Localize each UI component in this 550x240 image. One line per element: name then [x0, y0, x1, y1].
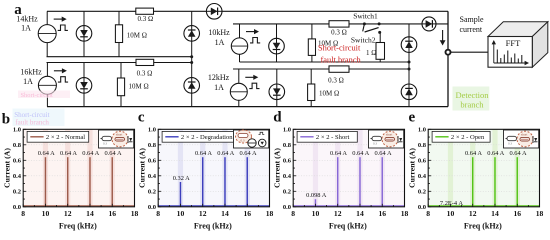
svg-text:Freq (kHz): Freq (kHz)	[194, 221, 232, 230]
svg-text:Short-circuit: Short-circuit	[21, 92, 54, 99]
resistor R1 10M	[115, 25, 122, 43]
svg-text:16kHz: 16kHz	[20, 67, 42, 76]
svg-text:0.32 A: 0.32 A	[173, 175, 190, 182]
svg-text:0.6: 0.6	[418, 158, 427, 165]
svg-text:1A: 1A	[21, 24, 31, 33]
svg-text:18: 18	[131, 209, 139, 218]
diode D6 left chain lower	[184, 78, 200, 94]
legend e	[432, 131, 490, 142]
wire resistor R2 branch	[120, 63, 122, 107]
svg-text:1.0: 1.0	[418, 127, 426, 134]
axis titles c	[137, 148, 232, 231]
wire branch2 top rail	[47, 62, 192, 64]
wire branch1 bottom rail	[47, 56, 192, 58]
arrow sample current	[440, 30, 446, 46]
current source I3 10kHz	[231, 29, 260, 54]
svg-text:fault branch: fault branch	[15, 119, 49, 127]
inset icon e	[504, 130, 539, 148]
resistor R8 1ohm fault	[376, 43, 385, 60]
svg-text:10M Ω: 10M Ω	[129, 83, 149, 91]
resistor R2 10M	[117, 78, 124, 96]
panel label b	[2, 112, 10, 128]
FFT box	[488, 22, 548, 67]
current source I4 12kHz	[230, 75, 259, 101]
diode D3	[269, 38, 285, 54]
svg-text:14: 14	[86, 209, 94, 218]
svg-text:fault branch: fault branch	[321, 56, 362, 65]
panel label d	[273, 110, 282, 126]
wire left diode chain	[191, 11, 193, 106]
svg-text:0.64 A: 0.64 A	[60, 150, 77, 157]
svg-text:0.3 Ω: 0.3 Ω	[331, 29, 347, 37]
value labels e	[440, 150, 527, 207]
panel label a	[14, 2, 22, 18]
svg-text:Freq (kHz): Freq (kHz)	[329, 221, 367, 230]
svg-text:8: 8	[156, 209, 160, 218]
svg-text:0.2: 0.2	[148, 189, 156, 196]
svg-text:0.8: 0.8	[418, 142, 427, 149]
svg-text:2 × 2 - Degradation: 2 × 2 - Degradation	[181, 134, 233, 141]
svg-text:10: 10	[42, 209, 50, 218]
axis tick labels e	[418, 127, 544, 219]
svg-text:0.64 A: 0.64 A	[195, 150, 212, 157]
wire resistor R1 branch	[118, 11, 120, 56]
label I2 16kHz 1A	[20, 67, 42, 86]
chart panel e	[428, 129, 539, 207]
wire resistor R3 branch	[311, 24, 313, 62]
legend d	[297, 131, 357, 142]
label R2 10M	[129, 83, 149, 91]
value labels b	[38, 150, 122, 157]
svg-text:d: d	[273, 110, 282, 126]
svg-text:Current (A): Current (A)	[407, 148, 416, 188]
wire diode D3 branch	[276, 24, 278, 62]
chart panel b	[23, 129, 134, 207]
svg-text:Short-circuit: Short-circuit	[318, 44, 361, 53]
resistor R9 0.3ohm	[329, 66, 349, 72]
svg-text:10kHz: 10kHz	[208, 28, 230, 37]
FFT spectrum axes	[492, 40, 529, 65]
svg-text:0.4: 0.4	[13, 173, 22, 180]
svg-text:7.2E-4 A: 7.2E-4 A	[440, 200, 463, 207]
label FFT	[506, 38, 521, 48]
svg-text:0.3 Ω: 0.3 Ω	[328, 77, 344, 85]
label R9 0.3ohm	[328, 77, 344, 85]
svg-text:0.2: 0.2	[13, 189, 21, 196]
diode D4	[269, 84, 285, 100]
label R4 10M	[319, 90, 339, 98]
svg-text:Switch1: Switch1	[353, 12, 378, 21]
svg-text:1.0: 1.0	[148, 127, 156, 134]
resistor R3 10M	[308, 39, 315, 56]
diode D7 middle chain upper	[401, 37, 417, 53]
axis titles b	[2, 148, 97, 231]
svg-text:16: 16	[108, 209, 116, 218]
svg-text:0.6: 0.6	[13, 158, 22, 165]
svg-text:10: 10	[447, 209, 455, 218]
svg-text:0.8: 0.8	[148, 142, 157, 149]
svg-text:18: 18	[536, 209, 544, 218]
svg-text:0.0: 0.0	[283, 204, 291, 211]
ghost text pink lower	[15, 119, 49, 127]
svg-text:14kHz: 14kHz	[16, 14, 38, 23]
label R3 10M	[318, 39, 338, 47]
svg-text:8: 8	[426, 209, 430, 218]
wire top rail left block	[47, 10, 448, 12]
detection branch highlight	[453, 87, 490, 111]
legend c	[162, 131, 236, 142]
svg-text:0.3: 0.3	[508, 142, 512, 146]
svg-text:0.4: 0.4	[418, 173, 427, 180]
svg-text:18: 18	[401, 209, 409, 218]
current source I1 14kHz	[38, 17, 68, 43]
label Switch1	[353, 12, 378, 21]
wire right edge	[447, 11, 449, 106]
label Switch2	[351, 36, 376, 45]
panel label e	[409, 110, 416, 126]
svg-text:2 × 2 - Open: 2 × 2 - Open	[451, 134, 485, 141]
wire middle block top rail	[233, 23, 448, 25]
diode D10 middle rail	[422, 17, 436, 31]
switch Switch1	[363, 22, 381, 32]
svg-text:short: short	[116, 133, 122, 137]
svg-text:0.3: 0.3	[103, 142, 107, 146]
svg-text:0.6: 0.6	[148, 158, 157, 165]
svg-text:1.0: 1.0	[13, 127, 21, 134]
svg-text:0.6: 0.6	[283, 158, 292, 165]
svg-text:0.64 A: 0.64 A	[510, 150, 527, 157]
svg-text:Current (A): Current (A)	[2, 148, 11, 188]
junction dots middle chain	[408, 61, 411, 71]
label I4 12kHz 1A	[208, 73, 230, 92]
svg-text:12: 12	[469, 209, 477, 218]
svg-text:0.3: 0.3	[373, 142, 377, 146]
svg-text:short: short	[521, 133, 527, 137]
svg-text:0.8: 0.8	[13, 142, 22, 149]
svg-text:0.64 A: 0.64 A	[375, 150, 392, 157]
svg-text:e: e	[409, 110, 416, 126]
svg-text:8: 8	[21, 209, 25, 218]
chart panel c	[158, 129, 269, 207]
svg-text:Current (A): Current (A)	[272, 148, 281, 188]
svg-text:0.64 A: 0.64 A	[330, 150, 347, 157]
svg-text:0.0: 0.0	[418, 204, 426, 211]
wire node to FFT	[451, 51, 488, 53]
svg-text:16: 16	[243, 209, 251, 218]
wire diode D2 branch	[83, 63, 85, 107]
panel label c	[138, 110, 145, 126]
svg-text:0.64 A: 0.64 A	[217, 150, 234, 157]
label Short-circuit fault branch	[318, 44, 362, 65]
value labels d	[306, 150, 392, 199]
svg-text:1A: 1A	[214, 83, 224, 92]
svg-text:14: 14	[356, 209, 364, 218]
svg-text:0.4: 0.4	[148, 173, 157, 180]
axis tick labels c	[148, 127, 274, 219]
label Sample current	[460, 15, 484, 34]
svg-text:0.64 A: 0.64 A	[38, 150, 55, 157]
svg-text:Freq (kHz): Freq (kHz)	[464, 221, 502, 230]
label R5 0.3ohm	[137, 15, 153, 23]
svg-text:10M Ω: 10M Ω	[319, 90, 339, 98]
resistor R7 0.3ohm middle top	[329, 21, 349, 27]
label R8 1ohm	[366, 49, 376, 57]
label I3 10kHz 1A	[208, 28, 230, 47]
wire source I1 stubs	[46, 11, 48, 56]
svg-text:0.098 A: 0.098 A	[306, 192, 327, 199]
svg-text:1 Ω: 1 Ω	[366, 49, 376, 57]
wire fault branch	[379, 32, 381, 62]
axis titles d	[272, 148, 367, 231]
ghost text blue	[13, 109, 65, 127]
svg-text:0.64 A: 0.64 A	[487, 150, 504, 157]
label R1 10M	[127, 31, 147, 39]
junction dots left chain	[190, 55, 193, 64]
svg-text:branch: branch	[460, 99, 484, 109]
FFT spectrum bars	[497, 50, 522, 64]
svg-text:0.64 A: 0.64 A	[240, 150, 257, 157]
wire resistor R4 branch	[310, 69, 312, 107]
svg-text:12: 12	[199, 209, 207, 218]
wire source I4 stubs	[238, 69, 240, 107]
svg-text:FFT: FFT	[506, 38, 521, 48]
resistor R4 10M	[308, 84, 315, 101]
diode D9 top rail	[206, 4, 222, 20]
svg-text:0.64 A: 0.64 A	[105, 150, 122, 157]
svg-text:b: b	[2, 112, 10, 128]
wire middle diode chain	[408, 24, 410, 107]
wire source I3 stubs	[239, 24, 241, 62]
svg-text:c: c	[138, 110, 145, 126]
label R6 0.3ohm	[137, 70, 153, 78]
ghost text pink upper	[18, 91, 70, 100]
diode D1	[76, 26, 92, 42]
value labels c	[173, 150, 257, 182]
svg-text:0.8: 0.8	[283, 142, 292, 149]
current source I2 16kHz	[38, 68, 68, 94]
label R7 0.3ohm	[331, 29, 347, 37]
axis tick labels d	[283, 127, 409, 219]
chart panel d	[293, 129, 404, 207]
label I1 14kHz 1A	[16, 14, 38, 32]
axis titles e	[407, 148, 502, 231]
resistor R5 0.3ohm top	[136, 8, 154, 14]
wire diode D1 branch	[83, 11, 85, 56]
diode D8 middle chain lower	[401, 84, 417, 100]
svg-text:12: 12	[334, 209, 342, 218]
svg-text:10: 10	[177, 209, 185, 218]
diode D2	[76, 78, 92, 94]
inset icon b	[99, 130, 134, 148]
node sample tap	[446, 50, 451, 55]
resistor R6 0.3ohm	[136, 59, 154, 65]
svg-text:18: 18	[266, 209, 274, 218]
svg-text:14: 14	[491, 209, 499, 218]
svg-text:8: 8	[291, 209, 295, 218]
svg-text:0.2: 0.2	[283, 189, 291, 196]
axis tick labels b	[13, 127, 139, 219]
wire 12kHz cell top rail	[233, 68, 409, 70]
wire diode D4 branch	[276, 69, 278, 107]
svg-text:0.64 A: 0.64 A	[352, 150, 369, 157]
svg-text:10M Ω: 10M Ω	[127, 31, 147, 39]
svg-text:1A: 1A	[23, 77, 33, 86]
svg-text:12: 12	[64, 209, 72, 218]
svg-text:Current (A): Current (A)	[137, 148, 146, 188]
svg-text:0.0: 0.0	[13, 204, 21, 211]
svg-text:1A: 1A	[215, 38, 225, 47]
svg-text:0.64 A: 0.64 A	[82, 150, 99, 157]
svg-text:1.0: 1.0	[283, 127, 291, 134]
svg-text:2 × 2 - Normal: 2 × 2 - Normal	[46, 134, 85, 141]
svg-text:0.4: 0.4	[283, 173, 292, 180]
legend b	[27, 131, 89, 142]
diode D5 left chain upper	[184, 26, 200, 42]
svg-text:Sample: Sample	[460, 15, 484, 24]
svg-text:0.3 Ω: 0.3 Ω	[137, 70, 153, 78]
svg-text:16: 16	[378, 209, 386, 218]
svg-text:2 × 2 - Short: 2 × 2 - Short	[316, 134, 350, 141]
svg-text:10: 10	[312, 209, 320, 218]
svg-text:14: 14	[221, 209, 229, 218]
wire 10kHz cell bottom rail	[240, 61, 410, 63]
svg-text:current: current	[460, 25, 483, 34]
svg-text:0.64 A: 0.64 A	[465, 150, 482, 157]
svg-text:12kHz: 12kHz	[208, 73, 230, 82]
svg-text:0.2: 0.2	[418, 189, 426, 196]
svg-text:Freq (kHz): Freq (kHz)	[59, 221, 97, 230]
svg-text:16: 16	[513, 209, 521, 218]
wire source I2 stubs	[46, 63, 48, 107]
label Detection branch	[455, 90, 489, 109]
svg-text:0.0: 0.0	[148, 204, 156, 211]
svg-text:short: short	[386, 133, 392, 137]
svg-text:0.3 Ω: 0.3 Ω	[137, 15, 153, 23]
svg-text:0.3: 0.3	[241, 139, 245, 143]
inset icon c	[234, 130, 269, 148]
wire main bottom rail	[47, 106, 448, 108]
switch Switch2	[378, 31, 381, 34]
inset icon d	[369, 130, 404, 148]
